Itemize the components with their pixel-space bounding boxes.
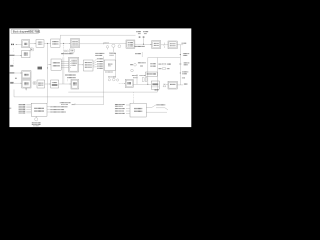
block U17 motor driver (125, 79, 133, 87)
wire U7 output B+ rail (177, 44, 183, 46)
labels left of U21 (115, 104, 125, 114)
wire long return 97 (14, 96, 104, 98)
label left edge (10, 108, 12, 109)
wire vertical node B down (63, 43, 65, 57)
block U3 tuner pack (51, 39, 60, 47)
block U4 decoder (71, 39, 80, 48)
transistor Q6 (108, 79, 110, 81)
connector J2 battery (139, 36, 145, 37)
wire switch continue (156, 107, 165, 109)
block U14 A/D (51, 59, 61, 70)
motor M1 (33, 81, 36, 84)
block U2 IF (36, 40, 44, 48)
flat block U22 (146, 72, 158, 76)
sub block X2 (70, 49, 75, 52)
transistor Q1 (106, 46, 108, 50)
wire vertical node A to system control (47, 43, 49, 103)
block U15 DSP (69, 57, 79, 72)
label above Q6 (108, 76, 116, 77)
label M (15, 78, 17, 79)
wire node C vertical (143, 38, 145, 44)
wire through regulator transistors (105, 43, 127, 45)
arrows into U21 (126, 105, 130, 113)
inductor L1 (161, 43, 168, 48)
label ACC B+ (136, 31, 149, 34)
wire U15 to U16 (78, 63, 83, 66)
connector J4 (10, 82, 13, 84)
label left of Q4 (130, 64, 133, 65)
wire U19 speaker out (177, 84, 183, 86)
wire vertical at 115 (115, 53, 117, 77)
label above fanout (95, 53, 105, 56)
dark label mute (38, 67, 43, 70)
wire stub at 137 (136, 74, 138, 84)
label rail top small (182, 77, 185, 78)
label speaker (184, 84, 188, 85)
label CD in (10, 55, 15, 56)
wire Q8 to U17 (119, 82, 125, 85)
wire bus pair down to servo row (62, 58, 64, 85)
wire vertical at 147.8 (147, 58, 149, 85)
label above U15 (61, 53, 74, 54)
resistor R2 row (159, 68, 170, 70)
wire stub into U13 top (67, 79, 69, 82)
block U18 audio power (151, 81, 159, 89)
wire mid horizontal stub (72, 104, 104, 106)
block U13 servo DSP (71, 79, 79, 89)
labels fanout (97, 58, 104, 69)
wire CD in to U8 (15, 54, 22, 57)
wire node C to U6 (144, 43, 152, 46)
top bus wire (60, 34, 135, 36)
label above U13 (67, 77, 76, 78)
bus U14 to U15 (61, 62, 69, 68)
label rail 8V (183, 62, 189, 65)
wire dashed down to U21 (132, 92, 135, 103)
marks under Q4 label (140, 65, 143, 66)
switch SW1 (146, 104, 165, 107)
connector J3 aux (10, 59, 13, 67)
block U16 audio out (83, 60, 93, 71)
transistor Q2 (112, 44, 115, 52)
node D junction (180, 54, 181, 55)
arrows into U20 (26, 104, 31, 113)
wire dashes below J1 (13, 48, 15, 53)
wire U11 to U12 (45, 83, 51, 86)
transistor Q5 (131, 69, 134, 72)
wire U5 to node C (135, 43, 144, 45)
block U11 driver (37, 80, 45, 88)
label right of Q4 (138, 62, 146, 63)
transistor Q8 (117, 79, 119, 81)
resistor R1 row (159, 63, 171, 65)
label above transistors (104, 41, 109, 44)
capacitor C2 on rail (179, 64, 181, 65)
block U12 RF amp (51, 80, 59, 88)
wire stub at 142 (141, 52, 143, 57)
wire U2 to U3, junction node A (44, 43, 51, 44)
title box (11, 29, 41, 33)
transistor Q3 (118, 45, 121, 48)
label below U15 (65, 74, 76, 75)
transistor Q7 (113, 76, 116, 81)
svg-text:KDC-7021: KDC-7021 (28, 30, 41, 34)
labels below U20 (32, 122, 41, 126)
block U20 system control (31, 103, 47, 116)
labels left of U20 (19, 104, 26, 114)
connector J1 tuner antenna (11, 44, 22, 45)
transistor Q4 (134, 64, 137, 67)
wire B+ rail vertical (179, 45, 181, 85)
wire vertical mid rail (103, 57, 105, 105)
transistor Q9 below U20 (35, 116, 38, 121)
wire U4 to power input (80, 42, 105, 45)
block U6 power supply (152, 41, 161, 49)
page (9, 28, 191, 127)
block U5 regulator (126, 40, 135, 48)
wire U12 to U13 (59, 83, 71, 86)
label power section (135, 53, 142, 54)
block U21 display (130, 103, 146, 117)
node F junction (147, 84, 148, 85)
node E junction (180, 72, 181, 73)
node C junction (143, 44, 144, 45)
wire J4 to U10 (14, 82, 22, 85)
wire long return 92 (68, 91, 157, 93)
wire U3 to U4, junction node B (60, 43, 71, 44)
arrow on vertical A rail (46, 67, 49, 69)
wire U21 out2 (146, 111, 167, 113)
label B+ out (182, 43, 187, 44)
block U7 switching reg (168, 41, 177, 49)
label under Q2 (110, 53, 117, 54)
label right of 147.8 rail (150, 63, 156, 66)
connector J5 (142, 78, 147, 82)
block U8 head amp (22, 50, 30, 57)
block U1 front-end (22, 40, 30, 48)
wire into U14 (48, 63, 51, 66)
block U19 final (168, 81, 177, 89)
ground pointer under U10 (25, 88, 26, 91)
fanout wires U16 outputs (93, 59, 97, 67)
label below U23 (105, 72, 113, 73)
label rail 5V (183, 53, 190, 56)
diode D1 (163, 84, 166, 87)
wire horizontal 57.6 (148, 57, 181, 59)
label changer in (10, 72, 15, 73)
wire into U18 (137, 83, 151, 85)
label at end of 92 (155, 89, 159, 90)
block U10 pickup (22, 79, 31, 88)
labels right of U20 (50, 106, 67, 112)
block U9 mechanism (22, 71, 31, 79)
label rail 3.3V (182, 71, 189, 74)
capacitor C1 (64, 50, 68, 52)
label memory B+ (135, 46, 145, 47)
wire horizontal at 52.8 (109, 52, 116, 54)
block U23 buffer (104, 60, 115, 70)
label above right of U20 (60, 102, 76, 105)
pins right of U20 (47, 107, 50, 112)
crystal X1 (30, 48, 33, 51)
wire U1 to U2 (30, 42, 36, 45)
wire changer to U9 (15, 72, 22, 75)
wire vertical 157 (156, 58, 158, 93)
wire D1 to U19 (166, 84, 168, 86)
labels above stub (132, 75, 138, 76)
